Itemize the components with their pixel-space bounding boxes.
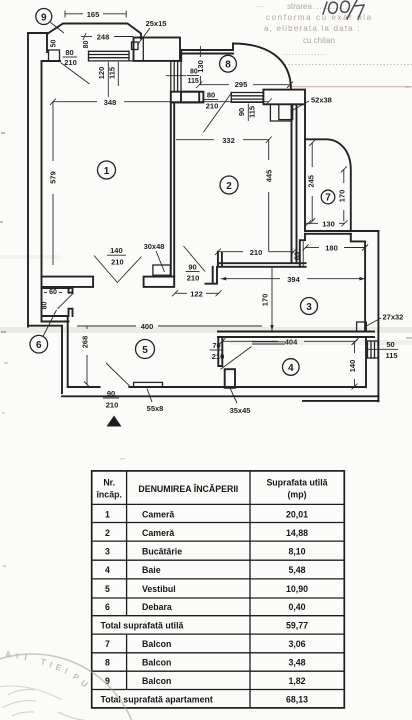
svg-text:404: 404 <box>285 338 298 347</box>
dim 170 kitchen <box>261 267 274 331</box>
room 8 top wall <box>181 44 233 62</box>
label 90/210 bottom <box>103 389 119 410</box>
svg-text:6: 6 <box>105 602 110 612</box>
svg-text:5,48: 5,48 <box>288 565 305 575</box>
dim 210 room2 bottom <box>215 248 297 257</box>
dim 83 <box>293 241 304 266</box>
balcony 8 arc <box>233 44 291 90</box>
svg-text:59,77: 59,77 <box>286 621 308 631</box>
door 80/210 balcony 9 swing <box>61 63 90 85</box>
circle room 4 <box>283 359 300 376</box>
svg-text:80: 80 <box>65 48 73 57</box>
dim 400 <box>77 322 262 331</box>
long wall rooms 5/3 - room 4 <box>218 332 374 338</box>
svg-text:210: 210 <box>187 274 200 283</box>
svg-text:5: 5 <box>105 584 110 594</box>
room 6 door swing <box>58 293 74 309</box>
svg-text:248: 248 <box>97 33 110 42</box>
door 90/210 bottom swing <box>106 363 131 387</box>
table outer border <box>92 471 345 708</box>
svg-text:210: 210 <box>111 258 124 267</box>
svg-text:2: 2 <box>226 181 232 192</box>
label 90/210 room2 door <box>186 263 200 283</box>
bottom wall thick right <box>303 400 378 402</box>
svg-text:2: 2 <box>105 528 110 538</box>
svg-text:Baie: Baie <box>142 565 161 575</box>
svg-text:130: 130 <box>322 219 335 228</box>
svg-text:170: 170 <box>338 190 347 203</box>
svg-text:14,88: 14,88 <box>286 528 308 538</box>
dim 445 <box>265 140 274 252</box>
pillar 25x15 <box>132 42 139 50</box>
door 90/210 room2-vestibule swing <box>184 246 206 272</box>
svg-text:1,82: 1,82 <box>288 676 305 686</box>
circle room 6 <box>30 335 48 353</box>
room 6 bottom wall <box>28 33 69 326</box>
svg-text:7: 7 <box>105 639 110 649</box>
svg-text:încăp.: încăp. <box>95 490 121 500</box>
balcony 7 outline <box>305 139 351 231</box>
svg-text:115: 115 <box>385 351 397 360</box>
shelf 55x8 <box>134 382 163 387</box>
svg-text:3,06: 3,06 <box>288 639 305 649</box>
svg-text:a, eliberata la data :: a, eliberata la data : <box>264 24 361 33</box>
svg-text:400: 400 <box>141 322 154 331</box>
svg-text:25x15: 25x15 <box>146 19 167 28</box>
nook left wall <box>300 234 305 267</box>
circle room 3 <box>301 298 318 315</box>
kitchen top wall <box>218 252 306 267</box>
wall block right of balcony 9 <box>134 38 181 61</box>
room 6 top face <box>43 287 71 289</box>
dim 90/115 rotated below window <box>247 104 249 122</box>
svg-text:140: 140 <box>110 246 123 255</box>
dim 295 <box>196 80 293 89</box>
svg-text:1: 1 <box>104 166 110 177</box>
window vertical room1-room8 <box>171 61 181 92</box>
faint printed text top right <box>256 2 373 57</box>
speckles <box>0 86 412 567</box>
wall block top-right of room 2 <box>263 90 305 105</box>
svg-text:245: 245 <box>307 175 316 188</box>
room4 left wall stub <box>218 337 222 366</box>
svg-text:3,48: 3,48 <box>288 657 305 667</box>
dim 180 <box>303 244 369 253</box>
circle room 5 <box>136 340 155 359</box>
balcony 9 left notch <box>49 50 60 60</box>
pier below window <box>171 92 199 103</box>
svg-text:Nr.: Nr. <box>103 478 115 488</box>
dim 332 <box>176 136 272 145</box>
svg-text:68,13: 68,13 <box>286 695 308 705</box>
svg-text:strarea: strarea <box>287 2 312 11</box>
wall block right of door140 <box>144 277 175 287</box>
svg-text:80: 80 <box>42 302 49 310</box>
svg-text:8,10: 8,10 <box>288 547 305 557</box>
svg-text:55x8: 55x8 <box>147 404 164 413</box>
svg-text:348: 348 <box>104 98 117 107</box>
dim 170 balcony7 <box>338 166 347 221</box>
dim 130 room8 <box>196 46 205 85</box>
svg-text:120: 120 <box>97 67 106 80</box>
svg-text:conforma cu exar pla: conforma cu exar pla <box>266 13 373 22</box>
svg-text:90: 90 <box>107 389 115 398</box>
svg-text:70: 70 <box>212 341 220 350</box>
window room8-room2 <box>231 93 263 103</box>
dim 248 <box>81 33 133 42</box>
bottom wall <box>62 337 378 396</box>
corridor left wall <box>62 316 68 393</box>
svg-text:30x48: 30x48 <box>144 242 165 251</box>
label 55x8 <box>147 389 152 403</box>
svg-text:cu chitan: cu chitan <box>303 36 335 45</box>
tick on vertical window <box>166 75 186 77</box>
svg-text:130: 130 <box>196 60 205 73</box>
scan artifact band <box>0 327 412 333</box>
svg-text:..............: .............. <box>282 48 327 57</box>
box 30x48 <box>153 265 171 275</box>
divider wall rooms 1/2 <box>171 103 174 277</box>
room 2 right wall <box>292 104 306 263</box>
room 6 right wall <box>69 287 73 316</box>
dim 579 <box>49 102 58 265</box>
svg-text:394: 394 <box>287 275 300 284</box>
dim 140 room4 <box>348 339 358 390</box>
svg-text:165: 165 <box>87 10 100 19</box>
svg-text:Bucătărie: Bucătărie <box>142 547 182 557</box>
window 50/115 room4 right <box>368 341 379 358</box>
svg-text:Balcon: Balcon <box>142 676 171 686</box>
door 70/210 swing <box>221 347 252 370</box>
svg-text:(mp): (mp) <box>287 490 306 500</box>
outer left wall <box>28 33 47 327</box>
svg-text:210: 210 <box>106 400 119 409</box>
svg-text:Balcon: Balcon <box>142 657 171 667</box>
svg-text:210: 210 <box>250 248 263 257</box>
faint red line (scan) <box>287 86 412 88</box>
svg-text:170: 170 <box>261 294 270 307</box>
svg-text:115: 115 <box>188 78 199 85</box>
north triangle <box>107 416 122 427</box>
balcony 9 outline <box>47 24 141 53</box>
step wall by door <box>205 267 217 284</box>
window room1-balcony9 <box>89 51 134 61</box>
svg-text:3: 3 <box>105 547 110 557</box>
svg-text:60: 60 <box>49 289 57 296</box>
svg-text:6: 6 <box>36 340 42 351</box>
circle room 2 <box>220 176 238 194</box>
svg-text:140: 140 <box>348 360 357 373</box>
svg-text:210: 210 <box>64 58 77 67</box>
room1 bottom wall left <box>42 277 94 287</box>
circle room 9 <box>36 9 52 25</box>
svg-text:210: 210 <box>206 102 219 111</box>
circle room 1 <box>98 161 116 179</box>
label 35x45 <box>230 388 237 403</box>
label 52x38 <box>293 101 309 110</box>
box 35x45 <box>225 369 235 388</box>
circle room 7 <box>321 190 335 204</box>
svg-text:8: 8 <box>225 60 231 71</box>
svg-text:115: 115 <box>107 67 116 79</box>
svg-text:···: ··· <box>256 2 264 11</box>
dim 245 <box>307 140 316 224</box>
svg-text:Balcon: Balcon <box>142 639 171 649</box>
svg-text:445: 445 <box>265 170 274 183</box>
svg-text:7: 7 <box>325 193 331 204</box>
svg-text:0,40: 0,40 <box>288 602 305 612</box>
label 80/210 balcony9 door <box>63 48 78 67</box>
svg-text:Vestibul: Vestibul <box>142 584 176 594</box>
svg-text:90: 90 <box>237 108 246 116</box>
label 60 room6 <box>44 289 62 296</box>
label 80/115 vertical window <box>187 69 199 86</box>
interior step top-right room2 <box>270 104 291 121</box>
svg-text:3: 3 <box>306 302 312 313</box>
svg-text:180: 180 <box>325 244 338 253</box>
dim 268 <box>81 326 91 388</box>
leader circle 9 <box>51 23 65 34</box>
svg-text:4: 4 <box>288 363 294 374</box>
label 140/210 <box>107 246 126 267</box>
svg-text:Debara: Debara <box>142 602 172 612</box>
svg-text:90: 90 <box>188 263 196 272</box>
svg-text:DENUMIREA ÎNCĂPERII: DENUMIREA ÎNCĂPERII <box>138 483 238 494</box>
handwritten 100/7 <box>323 0 364 19</box>
svg-text:10,90: 10,90 <box>286 584 308 594</box>
svg-text:8: 8 <box>105 657 110 667</box>
svg-text:1: 1 <box>105 509 110 519</box>
svg-text:579: 579 <box>49 171 58 184</box>
svg-text:122: 122 <box>190 289 203 298</box>
door leaf lines <box>252 342 285 344</box>
svg-text:5: 5 <box>142 345 148 356</box>
dim 394 <box>221 275 365 284</box>
svg-text:Cameră: Cameră <box>142 528 174 538</box>
faint dotted line (scan) <box>285 64 412 66</box>
svg-text:50: 50 <box>51 40 58 48</box>
svg-text:50: 50 <box>386 340 394 349</box>
svg-text:115: 115 <box>248 106 257 118</box>
dim 120 / 115 rotated <box>107 62 109 97</box>
svg-text:52x38: 52x38 <box>311 96 332 105</box>
dim 130 balcony7 <box>305 219 347 228</box>
svg-text:9: 9 <box>41 12 47 23</box>
svg-text:295: 295 <box>235 80 248 89</box>
label 27x32 <box>366 318 381 326</box>
column divider 1 <box>126 471 128 690</box>
leader circle 6 <box>43 310 57 337</box>
svg-text:80: 80 <box>83 41 90 49</box>
svg-text:80: 80 <box>207 91 215 100</box>
svg-text:210: 210 <box>212 352 225 361</box>
column divider 2 <box>249 471 251 708</box>
svg-text:4: 4 <box>105 565 110 575</box>
room 1 top inner face <box>42 60 61 62</box>
circle room 8 <box>220 55 237 72</box>
svg-text:27x32: 27x32 <box>383 313 404 322</box>
label 50/115 <box>366 340 398 360</box>
wall piece left of room8 door <box>181 92 203 103</box>
svg-text:268: 268 <box>81 336 90 349</box>
svg-text:35x45: 35x45 <box>230 406 251 415</box>
svg-text:A: A <box>5 649 11 659</box>
dim 165 <box>65 10 126 19</box>
svg-text:Total suprafată utilă: Total suprafată utilă <box>101 621 184 631</box>
svg-text:Suprafata utilă: Suprafata utilă <box>266 478 327 488</box>
dim 404 <box>219 338 358 347</box>
row lines <box>92 504 345 689</box>
label 80/210 room8 <box>204 91 218 111</box>
svg-text:Cameră: Cameră <box>142 509 174 519</box>
step block right <box>351 231 379 401</box>
box 52x38 <box>279 104 293 119</box>
kitchen right wall <box>364 241 366 331</box>
svg-text:20,01: 20,01 <box>286 509 308 519</box>
door 140/210 double swing <box>94 256 142 283</box>
svg-text:332: 332 <box>222 136 235 145</box>
dim 122 <box>172 289 222 298</box>
balcony7 bottom wall <box>305 231 378 234</box>
label 70/210 <box>210 341 225 361</box>
box 27x32 <box>357 322 367 332</box>
dim 348 <box>50 98 272 107</box>
door 80/210 room8 swing <box>203 93 231 132</box>
